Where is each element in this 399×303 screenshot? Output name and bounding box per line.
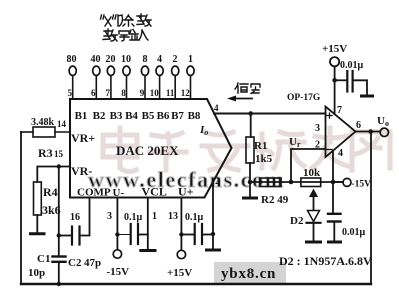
svg-text:OP-17G: OP-17G bbox=[287, 93, 321, 103]
svg-text:R3: R3 bbox=[38, 146, 53, 160]
svg-text:B1: B1 bbox=[75, 110, 88, 122]
svg-text:0.01μ: 0.01μ bbox=[340, 60, 364, 71]
node VR- junction bbox=[57, 164, 61, 168]
svg-text:6: 6 bbox=[356, 120, 361, 131]
ground (R4) bbox=[31, 232, 45, 235]
capacitor C2 47p bbox=[59, 227, 80, 245]
capacitor C1 10p bbox=[53, 257, 66, 285]
ground (D2) bbox=[307, 241, 321, 244]
svg-text:10p: 10p bbox=[28, 267, 45, 279]
resistor R4 3k6 bbox=[34, 182, 42, 215]
watermark large CJK bbox=[103, 128, 390, 172]
resistor R1 1k5 bbox=[250, 114, 252, 138]
ground (0.01u) bbox=[329, 241, 341, 244]
svg-text:Ur: Ur bbox=[289, 136, 301, 149]
svg-text:1: 1 bbox=[188, 54, 193, 65]
svg-text:3: 3 bbox=[107, 211, 112, 222]
svg-text:11: 11 bbox=[166, 88, 175, 98]
label 恒定 (fake glyphs) bbox=[235, 83, 260, 94]
wire rail to -15V terminal bbox=[333, 181, 343, 183]
svg-text:0.01μ: 0.01μ bbox=[342, 227, 366, 238]
terminal Uo bbox=[380, 128, 388, 136]
node C1/C2 bbox=[57, 233, 61, 237]
watermark ybx8.cn background blotch bbox=[214, 262, 286, 284]
potentiometer wiper arrow bbox=[313, 198, 315, 210]
svg-text:B8: B8 bbox=[188, 110, 201, 122]
wire VR- to R4 bbox=[37, 167, 70, 183]
svg-text:2: 2 bbox=[173, 54, 178, 65]
DAC U1 chip outline bbox=[70, 99, 232, 198]
svg-text:10: 10 bbox=[121, 54, 131, 65]
svg-text:B3: B3 bbox=[110, 110, 123, 122]
svg-text:6: 6 bbox=[91, 88, 96, 98]
capacitor 0.1u (U+) bbox=[181, 224, 213, 244]
wire Io: DAC pin4 to op-amp pin3 bbox=[214, 113, 326, 115]
svg-text:10: 10 bbox=[150, 88, 160, 98]
zener diode D2 bbox=[308, 211, 320, 222]
svg-text:80: 80 bbox=[67, 54, 77, 65]
node Io/R1 bbox=[248, 111, 253, 116]
wire Ur to op-amp pin 2 bbox=[291, 149, 326, 182]
node R1 bottom bbox=[248, 180, 253, 185]
arrow constant current (points left) bbox=[235, 98, 252, 100]
wire +15V to pin 7 bbox=[334, 67, 336, 115]
svg-text:20: 20 bbox=[106, 54, 116, 65]
数 bbox=[137, 14, 151, 26]
svg-text:7: 7 bbox=[106, 88, 111, 98]
svg-text:C2: C2 bbox=[68, 257, 82, 269]
svg-text:40: 40 bbox=[91, 54, 101, 65]
wire VR- node down to C1/C2 node bbox=[58, 167, 60, 257]
wire feedback left vertical bbox=[20, 132, 22, 284]
svg-text:ybx8.cn: ybx8.cn bbox=[221, 266, 276, 282]
wire VCL pin 1 down to ground bbox=[147, 198, 149, 250]
title "X" 除数 (fake glyphs) bbox=[101, 14, 152, 26]
pin numbers 5..12 bbox=[68, 88, 191, 98]
wire U+ pin 13 down bbox=[180, 198, 182, 251]
svg-text:U-: U- bbox=[113, 187, 125, 199]
capacitor 0.01u (+15V decoupling) bbox=[335, 71, 367, 95]
svg-text:7: 7 bbox=[337, 105, 342, 116]
svg-text:47p: 47p bbox=[84, 257, 101, 269]
ground (+15V cap) bbox=[362, 95, 373, 98]
node +15V/cap bbox=[332, 78, 337, 83]
svg-text:C1: C1 bbox=[37, 253, 50, 265]
op-amp U2 OP-17G bbox=[326, 107, 356, 158]
svg-text:0.1μ: 0.1μ bbox=[124, 212, 143, 223]
svg-text:VR+: VR+ bbox=[71, 131, 95, 145]
svg-text:VR-: VR- bbox=[71, 164, 92, 178]
svg-text:U+: U+ bbox=[178, 185, 194, 199]
svg-text:14: 14 bbox=[57, 119, 67, 129]
node rail/op-amp pin4 bbox=[331, 180, 336, 185]
svg-text:Io: Io bbox=[199, 124, 208, 137]
wire R4 to ground bbox=[36, 215, 38, 233]
wire U- pin 3 down bbox=[116, 198, 118, 250]
svg-text:COMP: COMP bbox=[77, 187, 111, 199]
svg-text:3k6: 3k6 bbox=[42, 203, 61, 217]
terminal -15V (U-) bbox=[113, 250, 121, 258]
svg-text:B5: B5 bbox=[142, 110, 155, 122]
svg-text:15: 15 bbox=[54, 149, 64, 159]
svg-text:-15V: -15V bbox=[107, 266, 130, 278]
svg-text:B6: B6 bbox=[157, 110, 170, 122]
svg-text:10k: 10k bbox=[303, 167, 321, 179]
svg-text:5: 5 bbox=[68, 88, 73, 98]
node pin13/cap bbox=[179, 232, 183, 236]
svg-text:8: 8 bbox=[143, 54, 148, 65]
svg-text:B2: B2 bbox=[93, 110, 106, 122]
svg-text:1k5: 1k5 bbox=[255, 153, 273, 165]
svg-text:R1: R1 bbox=[254, 140, 267, 152]
svg-text:8: 8 bbox=[121, 88, 126, 98]
svg-text:2: 2 bbox=[315, 140, 320, 151]
svg-text:4: 4 bbox=[214, 103, 219, 113]
main wires bbox=[21, 132, 371, 285]
op-amp input polarity marks bbox=[327, 113, 332, 118]
svg-text:R2 49: R2 49 bbox=[261, 194, 289, 206]
svg-text:12: 12 bbox=[181, 88, 191, 98]
node output/feedback bbox=[368, 129, 373, 134]
potentiometer 10k bbox=[301, 178, 321, 187]
svg-text:Uo: Uo bbox=[377, 115, 389, 128]
除 bbox=[118, 15, 134, 26]
ground (VCL) bbox=[141, 249, 155, 252]
ground (DAC pin2) bbox=[207, 249, 220, 252]
svg-text:16: 16 bbox=[70, 212, 80, 223]
wire COMP pin 16 down bbox=[80, 198, 90, 236]
svg-text:VCL: VCL bbox=[142, 185, 167, 199]
svg-text:DAC 20EX: DAC 20EX bbox=[116, 143, 179, 158]
svg-text:+15V: +15V bbox=[167, 267, 192, 279]
node pin3/cap bbox=[115, 232, 119, 236]
wire feedback right vertical bbox=[370, 132, 372, 285]
capacitor 0.1u (U-) bbox=[117, 224, 147, 244]
svg-text:1: 1 bbox=[152, 211, 157, 222]
node pin2/cap bbox=[211, 232, 215, 236]
wire bottom rail bbox=[21, 283, 371, 285]
input terminal circles bbox=[69, 66, 194, 75]
svg-text:D2: D2 bbox=[290, 215, 304, 227]
terminal +15V (U+) bbox=[177, 250, 185, 258]
digital input terminals: weight labels bbox=[67, 54, 194, 65]
svg-text:0.1μ: 0.1μ bbox=[185, 212, 204, 223]
svg-text:R4: R4 bbox=[43, 185, 58, 199]
svg-text:-15V: -15V bbox=[352, 180, 372, 190]
svg-text:B7: B7 bbox=[171, 110, 184, 122]
resistor R2 49 bbox=[260, 178, 281, 187]
svg-text:3.48k: 3.48k bbox=[31, 117, 55, 128]
svg-text:2: 2 bbox=[215, 176, 220, 186]
svg-text:4: 4 bbox=[338, 148, 343, 159]
capacitor 0.01u (rail decoupling) bbox=[332, 182, 334, 213]
resistor 3.48k (VR+ feedback) bbox=[21, 127, 70, 137]
wire DAC pin 2 down to ground bbox=[212, 181, 214, 249]
svg-text:9: 9 bbox=[140, 88, 145, 98]
terminal -15V (rail) bbox=[343, 178, 351, 186]
chip bit labels B1-B8 bbox=[75, 110, 201, 122]
node C1 bottom on rail bbox=[57, 282, 61, 286]
input wires to chip pins bbox=[73, 76, 191, 100]
rail -15V horizontal bbox=[250, 181, 343, 183]
wire pin 4 down to rail bbox=[332, 151, 334, 182]
svg-text:13: 13 bbox=[168, 211, 178, 222]
svg-text:B4: B4 bbox=[125, 110, 138, 122]
ground (R1/rail) bbox=[249, 182, 251, 197]
svg-text:D2 : 1N957A.6.8V: D2 : 1N957A.6.8V bbox=[279, 254, 372, 268]
svg-text:+15V: +15V bbox=[322, 43, 347, 55]
svg-text:3: 3 bbox=[315, 123, 320, 134]
title 数字输入 (fake glyphs) bbox=[103, 29, 148, 41]
svg-text:4: 4 bbox=[157, 54, 162, 65]
node Ur bbox=[289, 180, 294, 185]
